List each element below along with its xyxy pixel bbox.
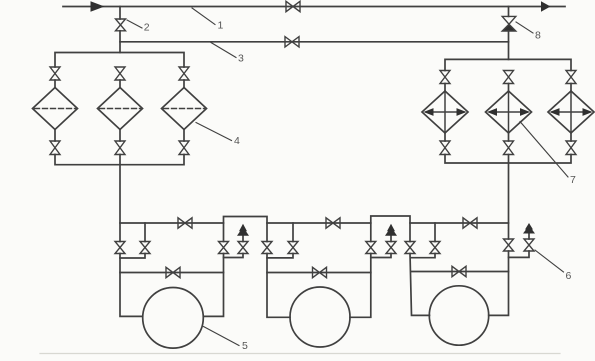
- wire stubs below diamonds: [54, 130, 56, 142]
- wire main left riser (valve2 down to left manifold): [119, 31, 121, 53]
- valve right group top branchA: [440, 71, 450, 84]
- svg-text:2: 2: [144, 21, 150, 33]
- wire check stem (unit1): [242, 235, 244, 242]
- wire suction riser (unit2): [267, 254, 290, 318]
- strainer S2 diamond with double arrow: [486, 91, 532, 133]
- filter F1 diamond: [33, 88, 78, 130]
- wire main left riser (valve2 to line3): [119, 7, 121, 20]
- label 1 leader: [192, 8, 215, 25]
- valve under check (unit2): [386, 242, 396, 254]
- label 7 leader: [520, 122, 568, 178]
- valve on line3 (horizontal bowtie): [285, 37, 299, 47]
- valve on header (unit3, horizontal bowtie): [463, 218, 477, 228]
- valve on box right edge (unit2): [405, 242, 415, 254]
- wire left group bottom manifold: [55, 155, 184, 165]
- pump P1: [143, 288, 204, 349]
- flow arrow right (solid, pointing right): [541, 1, 551, 12]
- wire stub valve branch (unit1): [144, 223, 146, 242]
- valve under check (unit1): [238, 242, 248, 254]
- wire stubs below strainers: [444, 133, 446, 141]
- valve on stub (unit2): [288, 242, 298, 254]
- wire lower bypass line (unit3): [411, 271, 509, 273]
- wire connector under valves (unit1): [120, 254, 145, 259]
- wire check branch jog (unit3): [509, 251, 530, 257]
- wire stubs to strainers: [444, 84, 446, 92]
- wire line3 second header: [120, 41, 509, 43]
- valve on right riser: [504, 239, 514, 251]
- wire suction riser continues to pump1: [120, 254, 143, 317]
- wire line1 top header: [63, 6, 565, 8]
- wire main right riser (manifold down to header end): [508, 155, 510, 240]
- valve on discharge riser (unit2): [366, 242, 376, 254]
- wire check stem (unit2): [390, 235, 392, 242]
- valve on bypass (unit3, horizontal bowtie): [452, 266, 466, 276]
- svg-text:4: 4: [234, 135, 240, 147]
- valve under check (unit3): [524, 239, 534, 251]
- label 6 leader: [535, 250, 564, 272]
- pump P2: [290, 287, 350, 347]
- wire stubs to filter diamonds: [54, 80, 56, 88]
- wire lower bypass line (unit1): [120, 272, 224, 274]
- scan smudge bottom: [40, 353, 560, 355]
- valve on discharge riser (unit1): [219, 242, 229, 254]
- valve on stub (unit3): [430, 242, 440, 254]
- filter F2 diamond: [98, 88, 143, 130]
- wire suction riser (unit3): [410, 254, 430, 316]
- valve on stub (unit1): [140, 242, 150, 254]
- strainer S1 diamond with double arrow: [422, 91, 468, 133]
- wire discharge riser (unit1): [204, 254, 224, 317]
- valve right group bottom branchB: [504, 141, 514, 155]
- valve on header (unit2, horizontal bowtie): [326, 218, 340, 228]
- valve left group bottom branchA: [50, 141, 60, 155]
- strainer S3 diamond with double arrow: [548, 91, 594, 133]
- valve right group top branchB: [504, 71, 514, 84]
- wire upper pump header segment 3: [410, 222, 509, 224]
- check valve arrow (unit3): [525, 223, 533, 230]
- svg-text:3: 3: [238, 52, 244, 64]
- svg-text:1: 1: [218, 19, 224, 31]
- wire discharge riser (unit2): [350, 254, 371, 318]
- valve on bypass (unit1, horizontal bowtie): [166, 267, 180, 277]
- wire lower bypass line (unit2): [267, 272, 371, 274]
- wire right riser (valve8 to right manifold): [508, 31, 510, 59]
- valve on header (unit1, horizontal bowtie): [178, 218, 192, 228]
- check valve arrow (unit1): [239, 224, 247, 231]
- filter F3 diamond: [162, 88, 207, 130]
- wire right group bottom manifold: [445, 155, 571, 164]
- valve V2 (vertical bowtie): [116, 19, 126, 31]
- valve right group bottom branchA: [440, 141, 450, 155]
- pump P3: [429, 286, 488, 345]
- wire stub valve branch (unit3): [434, 223, 436, 242]
- wire check stem (unit3): [528, 233, 530, 240]
- valve left group bottom branchC: [179, 141, 189, 155]
- wire discharge to right riser (unit3): [489, 251, 509, 315]
- valve left group top branchA: [50, 67, 60, 80]
- svg-text:5: 5: [242, 340, 248, 352]
- label 5 leader: [204, 327, 240, 346]
- svg-text:7: 7: [570, 174, 576, 186]
- wire right group top manifold: [445, 59, 571, 70]
- label 8 leader: [516, 22, 533, 33]
- valve on bypass (unit2, horizontal bowtie): [313, 267, 327, 277]
- wire check branch jog (unit2): [371, 254, 391, 258]
- wire left group top manifold: [55, 53, 184, 68]
- valve on line1 (horizontal bowtie): [286, 1, 300, 11]
- valve on box right edge (unit1): [262, 242, 272, 254]
- wire right riser top: [508, 7, 510, 17]
- valve left group top branchB: [115, 67, 125, 80]
- wire box over check valve (unit1): [224, 217, 268, 242]
- valve right group bottom branchC: [566, 141, 576, 155]
- wire upper pump header segment 1: [120, 222, 224, 224]
- wire connector under valves (unit3): [411, 254, 436, 258]
- label 3 leader: [211, 43, 236, 58]
- valve left group top branchC: [179, 67, 189, 80]
- check valve arrow (unit2): [387, 224, 395, 231]
- wire stub valve branch (unit2): [292, 223, 294, 242]
- label 2 leader: [127, 20, 142, 28]
- wire check branch jog (unit1): [224, 254, 244, 258]
- svg-text:8: 8: [535, 29, 541, 41]
- wire main left riser (manifold to pump header): [119, 155, 121, 242]
- valve left group bottom branchB: [115, 141, 125, 155]
- wire upper pump header segment 2: [267, 222, 371, 224]
- flow arrow left (solid, pointing right): [91, 1, 105, 12]
- label 4 leader: [196, 123, 232, 141]
- svg-text:6: 6: [566, 270, 572, 282]
- valve on suction riser (unit1): [115, 242, 125, 254]
- valve V8 (bowtie, bottom half solid): [502, 16, 516, 24]
- valve right group top branchC: [566, 71, 576, 84]
- wire connector under valves (unit2): [267, 254, 293, 258]
- wire box over check valve (unit2): [371, 216, 410, 242]
